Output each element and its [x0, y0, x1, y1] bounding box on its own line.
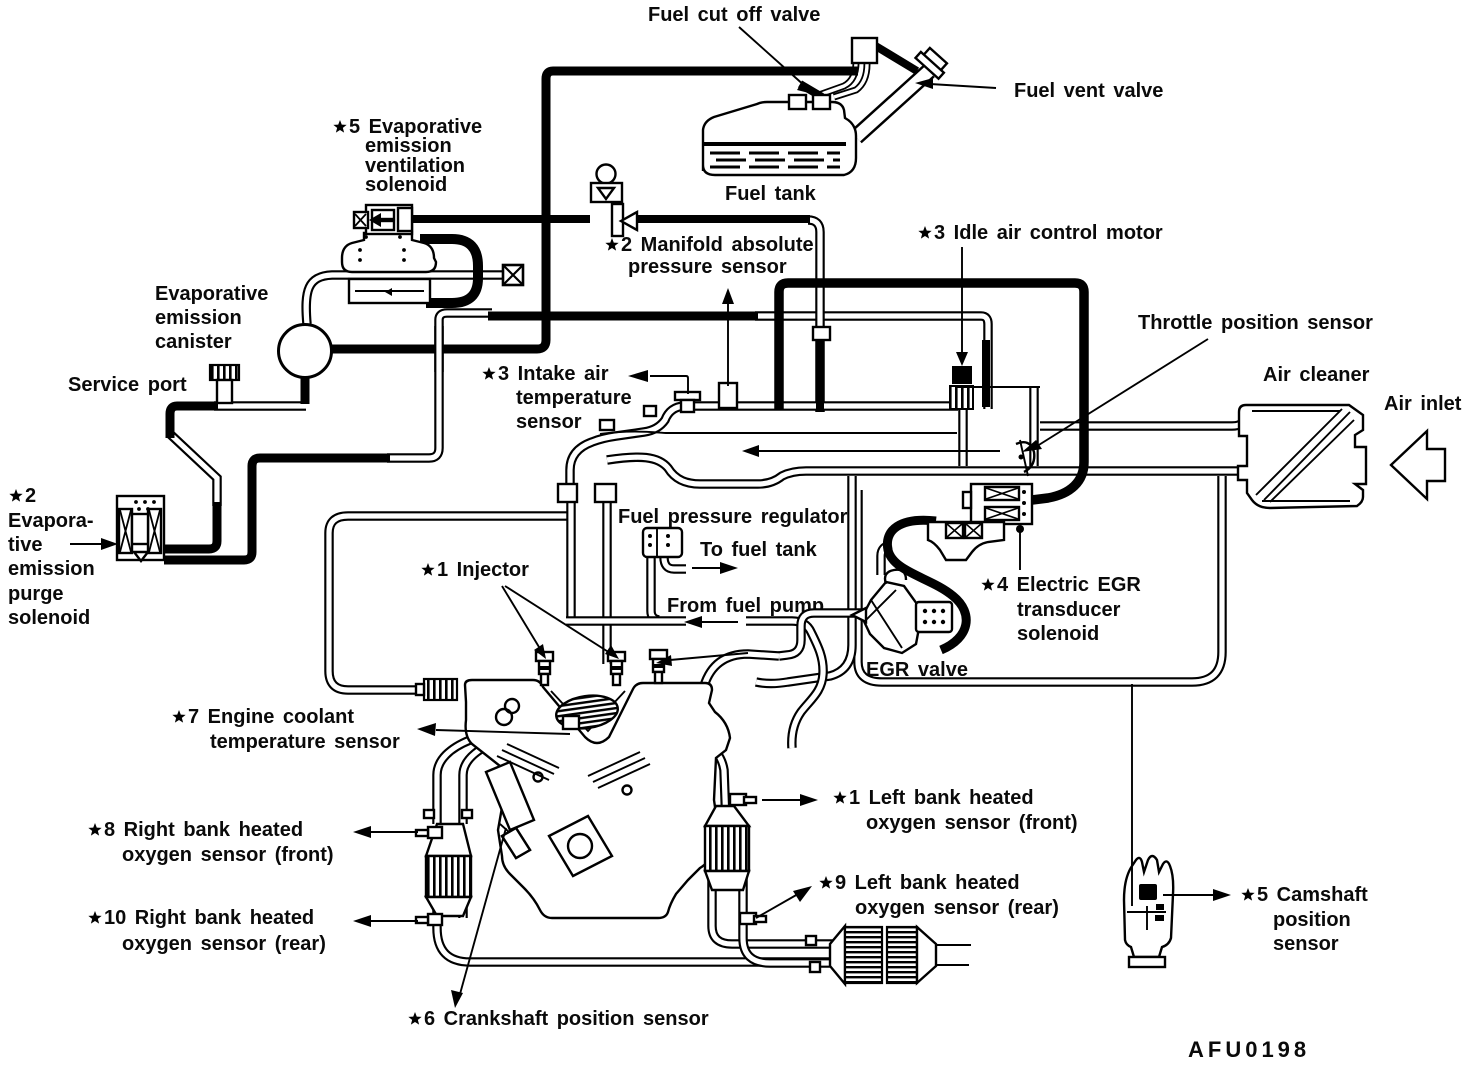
hose: MAP sensor loop hose: [779, 283, 1084, 500]
svg-text:transducer: transducer: [1017, 599, 1121, 621]
component: right rear oxygen sensor boss: [740, 913, 766, 924]
leader: right rear oxygen sensor arrow: [353, 915, 418, 927]
wire: EGR valve top stub: [881, 545, 892, 575]
svg-text:sensor: sensor: [1273, 933, 1339, 955]
svg-text:2: 2: [25, 485, 36, 507]
label: *2 Evaporative emission purge solenoid: [8, 485, 95, 629]
svg-text:temperature sensor: temperature sensor: [210, 731, 400, 753]
svg-text:Fuel cut off valve: Fuel cut off valve: [648, 4, 820, 26]
leader: crankshaft position sensor pointer: [451, 828, 506, 1008]
component: camshaft position sensor distributor: [1124, 856, 1173, 967]
wire: right intake riser to engine: [606, 500, 608, 664]
svg-text:canister: canister: [155, 331, 232, 353]
leader: camshaft position sensor arrow: [1163, 889, 1231, 901]
svg-text:4 Electric EGR: 4 Electric EGR: [997, 574, 1141, 596]
hose: service port pipe left section: [170, 406, 218, 438]
svg-text:8 Right bank heated: 8 Right bank heated: [104, 819, 303, 841]
wire: duct upper line throttle to air cleaner: [1040, 408, 1244, 426]
hose: fuel tank vent hose top run: [546, 71, 858, 313]
wire: camshaft sensor drop line: [1131, 684, 1133, 903]
label: *2 Manifold absolute pressure sensor: [605, 234, 813, 278]
hose: throttle riser thick section: [982, 340, 990, 407]
label: *10 Right bank heated oxygen sensor (rear): [88, 907, 326, 955]
hose: ventilation solenoid supply hose left: [412, 215, 590, 223]
hose: junction to manifold thick run: [488, 312, 758, 321]
component: right front oxygen sensor boss: [730, 794, 756, 805]
wire: throttle body left wall: [962, 386, 964, 466]
component: X capped port: [503, 265, 523, 285]
svg-text:Fuel vent valve: Fuel vent valve: [1014, 80, 1163, 102]
hose: tank left port hose: [800, 84, 822, 97]
component: fuel cut off valve box: [852, 38, 877, 63]
component: right bank catalytic converter: [705, 806, 749, 890]
svg-text:2 Manifold absolute: 2 Manifold absolute: [621, 234, 814, 256]
hose: canister bottom stub: [301, 374, 310, 404]
leader: idle air control motor pointer: [961, 247, 963, 352]
leader: fuel cut off valve pointer: [739, 27, 813, 94]
component: fuel tank: [703, 95, 856, 175]
svg-text:pressure sensor: pressure sensor: [628, 256, 787, 278]
leader: from fuel pump arrow: [684, 616, 738, 628]
leader: star4 throttle line arrow: [742, 445, 1000, 457]
wire: right exhaust below cat inner: [743, 872, 834, 963]
component: left bank catalytic converter: [426, 824, 471, 916]
wire: regulator return stub: [664, 557, 686, 569]
leader: injector pointer 3: [656, 653, 748, 666]
component: air inlet block arrow: [1391, 431, 1445, 499]
svg-text:3 Intake air: 3 Intake air: [498, 363, 609, 385]
svg-text:oxygen sensor (rear): oxygen sensor (rear): [122, 933, 326, 955]
wire: purge line riser to manifold run: [387, 313, 492, 458]
component: fuel pressure regulator: [643, 528, 682, 557]
component: intake air temperature sensor port: [675, 392, 700, 412]
leader: EGR transducer pointer with dot: [1016, 525, 1024, 570]
leader: injector pointer 2: [505, 586, 619, 659]
svg-text:Air cleaner: Air cleaner: [1263, 364, 1370, 386]
svg-text:1 Injector: 1 Injector: [437, 559, 529, 581]
component: air cleaner: [1238, 405, 1366, 508]
wire: canister purge loop pipe: [329, 516, 568, 690]
leader: injector pointer 1: [502, 586, 546, 659]
component: transducer mounting bracket with X clamps: [928, 522, 1004, 560]
leader: purge solenoid arrow: [70, 538, 118, 550]
svg-text:solenoid: solenoid: [1017, 623, 1099, 645]
wire: fuel cut off valve pipe to tank ports: [816, 62, 856, 96]
component: check valve to MAP line: [591, 165, 637, 237]
component: evaporative emission ventilation solenoid: [342, 205, 436, 303]
wire: right exhaust below cat outer: [712, 872, 834, 944]
component: intake manifold hatched oval: [554, 692, 620, 732]
svg-text:Evaporative: Evaporative: [155, 283, 268, 305]
wire: left exhaust to muffler bottom run: [437, 894, 834, 962]
svg-text:emission: emission: [8, 558, 95, 580]
label: *5 Camshaft position sensor: [1241, 884, 1368, 955]
leader: MAP sensor arrow up: [722, 288, 734, 386]
component: throttle body top line: [957, 386, 1040, 388]
leader: to fuel tank arrow: [692, 562, 738, 574]
leader: intake air temperature sensor arrow: [628, 370, 688, 394]
label: Evaporative emission canister: [155, 283, 268, 353]
component: throttle blade: [1016, 440, 1034, 476]
label: *4 Electric EGR transducer solenoid: [981, 574, 1141, 645]
svg-text:7 Engine coolant: 7 Engine coolant: [188, 706, 354, 728]
label: *8 Right bank heated oxygen sensor (front): [88, 819, 333, 866]
component: right intake riser flange: [595, 484, 616, 502]
svg-text:10 Right bank heated: 10 Right bank heated: [104, 907, 314, 929]
leader: engine coolant temperature sensor arrow: [417, 723, 570, 736]
component: exhaust pipe stubs near muffler: [806, 936, 820, 972]
wire: throttle body right wall: [1033, 386, 1035, 466]
wire: riser crossing redraw over canister hose: [438, 326, 440, 372]
component: MAP sensor port: [719, 383, 737, 408]
leader: throttle position sensor pointer: [1022, 339, 1208, 452]
svg-text:solenoid: solenoid: [8, 607, 90, 629]
component: left rear oxygen sensor boss: [416, 914, 442, 925]
label: *3 Intake air temperature sensor: [482, 363, 631, 433]
svg-text:5 Camshaft: 5 Camshaft: [1257, 884, 1368, 906]
svg-text:Throttle position sensor: Throttle position sensor: [1138, 312, 1373, 334]
wire: canister to ventilation solenoid pipe with X cap: [306, 275, 505, 324]
component: plenum top stub left: [600, 420, 614, 430]
hose: ventilation solenoid C hose: [420, 239, 478, 303]
component: evaporative emission canister circle: [279, 325, 332, 378]
hose: EGR transducer S hose: [887, 520, 966, 650]
leader: fuel vent valve pointer: [915, 78, 996, 89]
label: *7 Engine coolant temperature sensor: [172, 706, 400, 753]
component: EGR valve: [852, 570, 952, 653]
svg-text:oxygen sensor (front): oxygen sensor (front): [122, 844, 334, 866]
component: left intake riser flange: [558, 484, 577, 502]
hose: fuel cut off valve outlet hose: [874, 45, 917, 71]
svg-text:3 Idle air control motor: 3 Idle air control motor: [934, 222, 1163, 244]
hose: ventilation solenoid supply hose right: [636, 215, 810, 223]
svg-text:temperature: temperature: [516, 387, 632, 409]
wire: fuel supply line left section: [566, 620, 686, 622]
wire: left exhaust downpipe outer: [437, 740, 470, 824]
component: evaporative emission purge solenoid: [117, 496, 164, 561]
component: plenum top stub right: [644, 406, 656, 416]
svg-text:position: position: [1273, 909, 1351, 931]
svg-text:oxygen sensor (rear): oxygen sensor (rear): [855, 897, 1059, 919]
component: injector 2: [608, 652, 625, 685]
wire: EGR pipe loop right side and bottom: [858, 476, 1222, 682]
component: rear catalytic converter muffler: [830, 926, 971, 984]
wire: left intake riser to fuel rail: [570, 500, 572, 618]
component: service port: [209, 365, 240, 403]
svg-text:sensor: sensor: [516, 411, 582, 433]
component: electric EGR transducer solenoid: [963, 484, 1032, 524]
wire: manifold vacuum run thin section to throttle body: [755, 316, 988, 409]
svg-text:AFU0198: AFU0198: [1188, 1037, 1310, 1062]
svg-text:solenoid: solenoid: [365, 174, 447, 196]
svg-text:emission: emission: [365, 135, 452, 157]
component: idle air control motor: [950, 352, 973, 409]
wire: fuel supply line right section into engine: [746, 621, 823, 748]
label: *3 Idle air control motor: [918, 222, 1163, 244]
component: fuel vent valve cap: [915, 45, 949, 78]
wire: intake plenum upper outline: [570, 406, 958, 492]
svg-text:oxygen sensor (front): oxygen sensor (front): [866, 812, 1078, 834]
leader: left front oxygen sensor arrow: [762, 794, 818, 806]
svg-text:To fuel tank: To fuel tank: [700, 539, 818, 561]
wire: right exhaust downpipe: [700, 740, 726, 824]
component: PCV ribbed connector: [416, 679, 457, 700]
svg-text:tive: tive: [8, 534, 42, 556]
hose: tank vapor pipe lower thick section: [816, 336, 824, 412]
wire: fuel filler vent neck: [856, 71, 929, 137]
wire: EGR valve feed pipe: [779, 613, 865, 656]
hose: purge solenoid upper hose: [164, 502, 217, 549]
leader: left rear oxygen sensor pointer: [756, 886, 812, 918]
component: crankshaft position sensor: [500, 824, 530, 858]
svg-text:Evapora-: Evapora-: [8, 510, 94, 532]
leader: right front oxygen sensor arrow: [353, 826, 418, 838]
component: plenum lower wall line: [600, 432, 957, 434]
label: *5 Evaporative emission ventilation solenoid: [333, 116, 482, 196]
wire: fuel tank vapor pipe down to plenum: [808, 220, 820, 412]
svg-text:Fuel tank: Fuel tank: [725, 183, 817, 205]
svg-text:Service port: Service port: [68, 374, 187, 396]
wire: regulator drop pipe: [651, 557, 659, 620]
component: injector 1: [536, 652, 553, 685]
hose: purge solenoid lower hose: [164, 458, 390, 560]
svg-text:1 Left bank heated: 1 Left bank heated: [849, 787, 1034, 809]
hose: canister to junction hose: [330, 311, 546, 349]
svg-text:Fuel pressure regulator: Fuel pressure regulator: [618, 506, 848, 528]
wire: left exhaust downpipe inner: [463, 744, 490, 824]
wire: surge tank lower duct run: [607, 457, 1244, 484]
svg-text:6 Crankshaft position sensor: 6 Crankshaft position sensor: [424, 1008, 709, 1030]
wire: EGR loop left vertical to engine: [756, 476, 852, 684]
label: *1 Injector: [421, 559, 529, 581]
component: left exhaust pipe tabs: [424, 810, 472, 818]
label: *6 Crankshaft position sensor: [408, 1008, 708, 1030]
wire: fuel cut off valve pipe to right port: [834, 64, 867, 97]
component: injector 3: [650, 650, 667, 683]
label: *9 Left bank heated oxygen sensor (rear): [819, 872, 1059, 919]
component: left front oxygen sensor boss: [416, 827, 442, 838]
wire: left exhaust inner stub below cat: [462, 894, 464, 918]
svg-text:9 Left bank heated: 9 Left bank heated: [835, 872, 1020, 894]
wire: right bank intake runner: [704, 654, 779, 686]
component: engine block V6 cross-section: [465, 680, 730, 918]
wire: service port to purge solenoid diagonal pipe: [170, 434, 217, 506]
svg-text:Air inlet: Air inlet: [1384, 393, 1462, 415]
wire: service port pipe outlined section: [214, 405, 306, 407]
svg-text:purge: purge: [8, 583, 64, 605]
label: *1 Left bank heated oxygen sensor (front): [833, 787, 1077, 834]
svg-text:emission: emission: [155, 307, 242, 329]
component: tank vapor pipe fitting: [813, 327, 830, 340]
